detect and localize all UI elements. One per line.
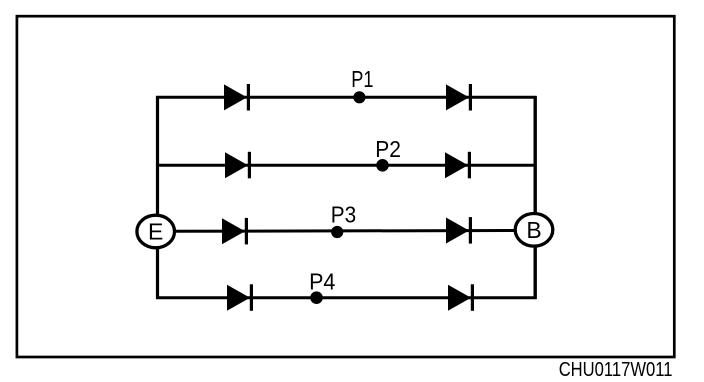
- node P3 junction dot: [331, 226, 343, 238]
- svg-text:P3: P3: [331, 202, 356, 228]
- svg-text:P1: P1: [351, 66, 373, 92]
- diode D1 (branch 1 left): [224, 84, 250, 111]
- diode D6 (branch 3 right): [446, 217, 472, 244]
- wire branch 1: [156, 96, 537, 99]
- wire left bus lower segment: [156, 249, 159, 299]
- svg-text:B: B: [526, 217, 541, 243]
- wire branch 3: [175, 229, 515, 233]
- wire right bus lower segment: [534, 247, 537, 299]
- wire left bus upper segment: [156, 96, 159, 214]
- diode D7 (branch 4 left): [227, 284, 253, 311]
- diode D3 (branch 2 left): [225, 152, 251, 179]
- svg-text:P2: P2: [375, 136, 401, 162]
- node P4 junction dot: [310, 291, 323, 304]
- terminal E: [137, 215, 175, 248]
- svg-text:E: E: [148, 219, 163, 245]
- diode D8 (branch 4 right): [448, 284, 474, 311]
- terminal B: [515, 214, 553, 247]
- node P1 junction dot: [353, 91, 365, 103]
- wire branch 4: [156, 296, 537, 299]
- wire right bus upper segment: [534, 96, 537, 213]
- diode D4 (branch 2 right): [445, 152, 471, 179]
- wire branch 2: [156, 164, 537, 167]
- diode D2 (branch 1 right): [446, 84, 472, 111]
- svg-text:P4: P4: [309, 268, 335, 294]
- diode D5 (branch 3 left): [222, 218, 248, 245]
- svg-text:CHU0117W011: CHU0117W011: [559, 358, 673, 381]
- node P2 junction dot: [376, 159, 389, 172]
